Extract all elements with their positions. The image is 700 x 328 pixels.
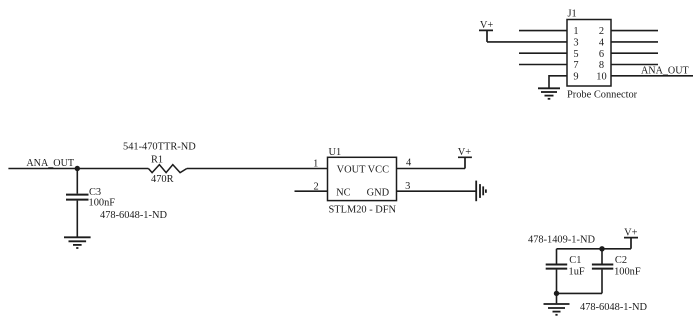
- wire J1 pin10 / net ANA_OUT: [611, 75, 693, 77]
- svg-text:Probe Connector: Probe Connector: [567, 89, 638, 100]
- svg-text:NC: NC: [336, 187, 351, 198]
- wire U1 pin3 to ground: [397, 190, 477, 192]
- svg-text:541-470TTR-ND: 541-470TTR-ND: [123, 142, 196, 153]
- resistor R1: [148, 165, 186, 173]
- IC U1: [328, 147, 397, 201]
- wire U1 pin4 to V+: [397, 168, 466, 170]
- svg-text:ANA_OUT: ANA_OUT: [641, 66, 689, 77]
- wire C1 bottom to ground: [556, 293, 558, 303]
- wire ground rail (C1/C2): [557, 292, 603, 294]
- svg-text:10: 10: [596, 71, 606, 82]
- svg-text:478-1409-1-ND: 478-1409-1-ND: [528, 235, 595, 246]
- junction C1 bottom: [554, 291, 559, 296]
- svg-text:3: 3: [573, 38, 578, 49]
- ground (J1 pin 9): [538, 88, 560, 99]
- svg-text:2: 2: [599, 26, 604, 37]
- ground (C1/C2): [544, 304, 570, 315]
- svg-text:VOUT VCC: VOUT VCC: [337, 164, 390, 175]
- svg-text:1: 1: [313, 158, 318, 169]
- svg-text:C2: C2: [615, 255, 627, 266]
- wire J1 pin8: [611, 64, 658, 66]
- svg-text:478-6048-1-ND: 478-6048-1-ND: [580, 302, 647, 313]
- junction at C3: [75, 166, 80, 171]
- svg-text:C3: C3: [89, 187, 101, 198]
- svg-text:ANA_OUT: ANA_OUT: [26, 158, 74, 169]
- capacitor C2: [592, 249, 613, 294]
- svg-text:J1: J1: [568, 8, 577, 19]
- svg-text:100nF: 100nF: [89, 197, 116, 208]
- wire J1 pin1: [519, 30, 567, 32]
- power V+ (C1/C2): [624, 227, 638, 248]
- svg-text:GND: GND: [367, 187, 390, 198]
- svg-text:2: 2: [313, 182, 318, 193]
- wire J1 pin3 (from V+): [487, 41, 567, 43]
- power V+ (U1): [458, 147, 472, 168]
- wire J1 pin9 to ground: [549, 76, 567, 88]
- svg-text:478-6048-1-ND: 478-6048-1-ND: [100, 210, 167, 221]
- svg-text:6: 6: [599, 49, 604, 60]
- power V+ (J1): [479, 20, 493, 42]
- svg-text:5: 5: [573, 49, 578, 60]
- svg-text:100nF: 100nF: [614, 267, 641, 278]
- capacitor C3: [66, 169, 89, 237]
- svg-text:STLM20 - DFN: STLM20 - DFN: [329, 204, 397, 215]
- svg-text:C1: C1: [569, 255, 581, 266]
- wire V+ rail (C1/C2): [557, 248, 632, 250]
- svg-text:8: 8: [599, 60, 604, 71]
- svg-text:3: 3: [405, 181, 410, 192]
- svg-text:U1: U1: [329, 147, 342, 158]
- wire J1 pin6: [611, 52, 658, 54]
- wire J1 pin7: [519, 64, 567, 66]
- wire ANA_OUT to R1: [8, 168, 148, 170]
- wire J1 pin2: [611, 30, 658, 32]
- junction C2 top: [599, 246, 604, 251]
- wire J1 pin5: [519, 52, 567, 54]
- svg-text:1: 1: [573, 26, 578, 37]
- wire R1 to U1 pin1: [187, 168, 328, 170]
- svg-text:9: 9: [573, 71, 578, 82]
- wire U1 pin2 (NC, open): [295, 190, 328, 192]
- ground (C3): [64, 237, 91, 248]
- svg-text:1uF: 1uF: [569, 267, 585, 278]
- svg-text:R1: R1: [151, 155, 163, 166]
- svg-text:4: 4: [599, 38, 605, 49]
- connector J1: [567, 8, 611, 86]
- svg-text:4: 4: [406, 158, 412, 169]
- wire J1 pin4: [611, 41, 658, 43]
- svg-text:470R: 470R: [151, 174, 174, 185]
- svg-text:7: 7: [573, 60, 578, 71]
- capacitor C1: [546, 249, 568, 294]
- ground (U1 pin3, right-facing): [476, 181, 486, 202]
